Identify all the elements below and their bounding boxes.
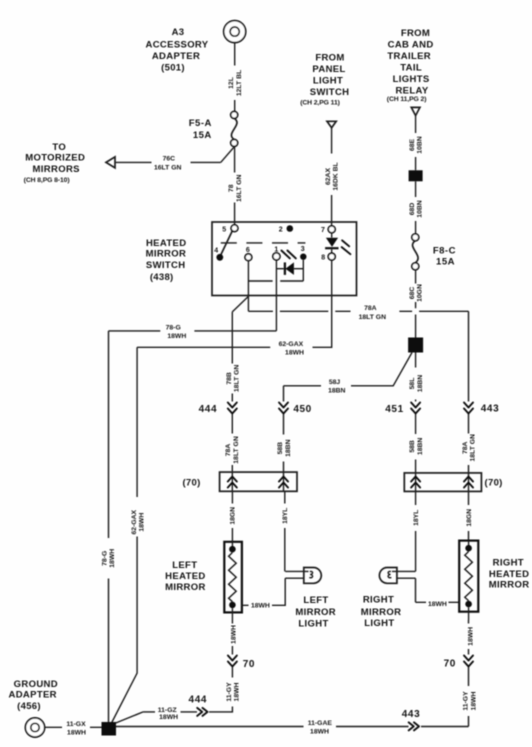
wire 78 16LT GN fuse to switch pin 5	[228, 146, 243, 225]
svg-text:HEATED: HEATED	[146, 238, 186, 249]
svg-text:18BN: 18BN	[328, 387, 345, 394]
wire 18WH right lamp to mirror	[416, 578, 460, 608]
switch S1 heated mirror switch (438) box	[212, 222, 357, 296]
LED D1 light rays	[342, 240, 351, 254]
label from panel light switch	[300, 53, 349, 107]
wire 11-GY 18WH left	[209, 667, 241, 712]
svg-text:MIRROR: MIRROR	[146, 249, 187, 260]
svg-text:15A: 15A	[436, 257, 455, 268]
svg-text:70: 70	[444, 659, 456, 670]
svg-text:8: 8	[321, 255, 325, 262]
svg-text:TO: TO	[52, 142, 66, 153]
svg-text:LIGHT: LIGHT	[298, 619, 328, 630]
LED D2 light rays	[281, 251, 296, 259]
svg-text:18WH: 18WH	[251, 603, 270, 610]
svg-text:RIGHT: RIGHT	[363, 594, 394, 605]
wire 18YL left lamp	[282, 491, 289, 571]
lamp right mirror light	[379, 568, 415, 584]
svg-text:62-GAX: 62-GAX	[279, 341, 304, 348]
svg-text:(CH 2,PG 11): (CH 2,PG 11)	[300, 100, 340, 107]
wire pin 6 vertical	[247, 261, 249, 297]
svg-text:MIRROR: MIRROR	[489, 580, 530, 591]
svg-text:78A: 78A	[364, 305, 377, 312]
svg-text:TRAILER: TRAILER	[387, 51, 431, 62]
svg-text:(456): (456)	[17, 701, 41, 712]
wire 78-G 18WH horizontal	[109, 325, 277, 341]
svg-text:MIRROR: MIRROR	[165, 582, 206, 593]
svg-text:(CH 11,PG 2): (CH 11,PG 2)	[387, 96, 427, 103]
LED D2 illumination diode horizontal	[276, 262, 303, 275]
svg-text:(70): (70)	[182, 478, 200, 489]
svg-text:451: 451	[385, 404, 404, 415]
fuse F5-A 15A	[189, 111, 238, 146]
svg-text:1: 1	[274, 246, 278, 253]
wire 78B 18LT GN column 444	[226, 312, 241, 472]
wire 18GN right mirror	[466, 491, 473, 540]
svg-text:18YL: 18YL	[413, 510, 420, 526]
ground adapter (456) connector	[25, 718, 44, 737]
svg-text:16LT GN: 16LT GN	[154, 164, 182, 171]
splice junction square 2	[408, 338, 423, 353]
arrow 444 connector	[199, 403, 237, 416]
svg-text:18GN: 18GN	[466, 509, 473, 527]
wire 58B 18BN column 450	[277, 386, 292, 472]
label heated mirror switch	[146, 238, 187, 283]
svg-text:2: 2	[279, 227, 283, 234]
svg-text:18WH: 18WH	[285, 350, 304, 357]
wire 68D 10BN	[409, 181, 424, 234]
arrow to motorized mirrors	[106, 157, 115, 168]
wire pin 6 to pin 3 internal	[248, 280, 303, 282]
svg-text:18WH: 18WH	[428, 601, 447, 608]
connector (70) left box	[182, 472, 297, 491]
arrow 450 connector	[279, 403, 312, 416]
svg-text:7: 7	[321, 227, 325, 234]
svg-text:18WH: 18WH	[167, 333, 186, 340]
connector (70) right chevrons	[411, 477, 473, 488]
svg-text:HEATED: HEATED	[165, 571, 205, 582]
wire 78-G 18WH left vertical	[102, 331, 117, 723]
svg-text:LIGHT: LIGHT	[364, 618, 394, 629]
label left heated mirror	[165, 560, 206, 593]
pin 1	[273, 246, 280, 260]
right heated mirror element R2	[459, 541, 478, 620]
wire 11-GAE 18WH bottom horizontal	[116, 720, 469, 736]
svg-text:444: 444	[199, 404, 218, 415]
label right mirror light	[361, 594, 402, 629]
svg-text:ACCESSORY: ACCESSORY	[146, 40, 209, 51]
wire 18WH left lamp to mirror	[242, 578, 285, 609]
svg-text:LEFT: LEFT	[303, 595, 328, 606]
wire 58L 18BN column 451	[409, 353, 424, 473]
svg-text:PANEL: PANEL	[312, 64, 345, 75]
svg-text:(501): (501)	[161, 62, 185, 73]
wire 78A 18LT GN above left connector	[225, 436, 240, 464]
connector (70) left chevrons	[228, 477, 288, 488]
svg-text:RELAY: RELAY	[395, 85, 428, 96]
label left mirror light	[295, 595, 336, 630]
wire 76C 16LT GN branch to motorized mirrors	[115, 146, 235, 171]
svg-text:444: 444	[189, 695, 208, 706]
switch blade pins 4-5	[214, 225, 238, 261]
svg-text:FROM: FROM	[315, 53, 344, 64]
svg-text:18YL: 18YL	[282, 508, 289, 524]
arrow 443 connector	[464, 403, 499, 415]
wire 68E 10BN	[409, 116, 424, 171]
svg-text:HEATED: HEATED	[489, 569, 529, 580]
arrow 70 left	[228, 656, 255, 671]
pin 3	[300, 246, 306, 260]
wire 18WH left ground drop	[230, 621, 237, 655]
pin 2	[279, 225, 293, 233]
arrow from cab and trailer relay	[411, 107, 420, 115]
connector A3 accessory adapter (501)	[224, 21, 246, 43]
svg-text:78-G18WH: 78-G18WH	[102, 549, 117, 568]
svg-text:11-GZ: 11-GZ	[158, 707, 177, 714]
wire 18YL right lamp	[413, 491, 420, 571]
svg-text:443: 443	[402, 709, 421, 720]
wire 18GN left mirror	[230, 491, 237, 542]
ground splice square	[102, 722, 117, 736]
arrow 451 connector	[385, 403, 420, 416]
svg-text:5: 5	[222, 226, 226, 233]
svg-text:11-GAE: 11-GAE	[308, 720, 333, 727]
svg-text:FROM: FROM	[401, 28, 430, 39]
svg-text:(70): (70)	[485, 477, 503, 488]
wire 68C 10GN	[409, 270, 424, 338]
label from cab and trailer tail lights relay	[387, 28, 434, 103]
svg-text:LEFT: LEFT	[172, 560, 197, 571]
left heated mirror element R1	[224, 542, 242, 621]
svg-text:6: 6	[246, 247, 250, 254]
svg-text:MIRRORS: MIRRORS	[33, 164, 80, 175]
svg-text:18WH: 18WH	[310, 729, 329, 736]
svg-text:15A: 15A	[193, 130, 212, 141]
svg-text:RIGHT: RIGHT	[493, 557, 524, 568]
svg-text:F5-A: F5-A	[189, 118, 212, 129]
svg-text:(CH 8,PG 8-10): (CH 8,PG 8-10)	[24, 177, 70, 184]
arrow 444 bottom	[189, 695, 208, 716]
fuse F8-C 15A	[412, 234, 456, 270]
svg-text:GROUND: GROUND	[14, 679, 58, 690]
wire 11-GX 18WH	[45, 721, 102, 737]
svg-text:58B18BN: 58B18BN	[409, 438, 424, 455]
connector (70) right box	[404, 473, 502, 492]
arrow from panel light switch	[327, 121, 336, 128]
svg-text:ADAPTER: ADAPTER	[152, 51, 200, 62]
pin 6	[245, 247, 252, 261]
wire 58J 18BN diagonal from splice	[284, 353, 413, 395]
svg-text:11-GX: 11-GX	[66, 721, 86, 728]
svg-text:58J: 58J	[329, 379, 341, 386]
wire 78A 18LT GN horizontal	[248, 296, 468, 320]
svg-text:68D10BN: 68D10BN	[409, 200, 424, 217]
svg-text:LIGHT: LIGHT	[313, 75, 343, 86]
svg-text:3: 3	[301, 246, 305, 253]
pin 7	[321, 226, 335, 234]
svg-text:18LT GN: 18LT GN	[359, 314, 387, 321]
wire pin 6 branch diagonal to 444 column	[232, 296, 248, 312]
wire 11-GY 18WH right	[463, 667, 478, 727]
svg-text:70: 70	[243, 659, 255, 670]
svg-text:58B18BN: 58B18BN	[277, 439, 292, 456]
wire pin 3 vertical	[302, 260, 304, 281]
lamp left mirror light	[285, 568, 321, 584]
splice junction square 1	[409, 170, 423, 181]
svg-text:TAIL: TAIL	[400, 62, 422, 73]
svg-text:18GN: 18GN	[230, 507, 237, 525]
svg-text:450: 450	[293, 404, 312, 415]
wire 62AX 16DK BL	[325, 128, 340, 226]
svg-text:(438): (438)	[150, 272, 174, 283]
svg-text:78-G: 78-G	[166, 325, 181, 332]
svg-text:11-GY18WH: 11-GY18WH	[463, 691, 478, 711]
svg-text:11-GY18WH: 11-GY18WH	[226, 682, 241, 702]
svg-text:443: 443	[481, 403, 500, 414]
svg-text:62-GAX18WH: 62-GAX18WH	[131, 509, 146, 534]
wire 12L 12LT BL	[228, 43, 243, 112]
svg-text:MIRROR: MIRROR	[361, 607, 402, 618]
label to motorized mirrors	[24, 142, 86, 184]
svg-text:SWITCH: SWITCH	[146, 260, 186, 271]
svg-text:MIRROR: MIRROR	[295, 607, 336, 618]
wire 11-GZ 18WH	[115, 707, 198, 724]
svg-text:F8-C: F8-C	[433, 246, 456, 257]
svg-text:ADAPTER: ADAPTER	[9, 690, 57, 701]
svg-text:4: 4	[214, 247, 218, 254]
switch linkage dashed line	[221, 242, 306, 244]
svg-text:18WH: 18WH	[67, 729, 86, 736]
wire 18WH right ground drop	[467, 620, 474, 655]
svg-text:18WH: 18WH	[230, 625, 237, 644]
svg-text:18WH: 18WH	[467, 627, 474, 646]
label ground adapter	[9, 679, 58, 712]
svg-text:76C: 76C	[163, 156, 176, 163]
wire 78A 18LT GN column 443	[462, 311, 477, 473]
wire 62-GAX 18WH from pin 8	[137, 260, 332, 356]
svg-text:A3: A3	[172, 27, 185, 38]
svg-text:MOTORIZED: MOTORIZED	[25, 153, 85, 164]
svg-text:SWITCH: SWITCH	[310, 87, 350, 98]
label A3 accessory adapter	[146, 27, 209, 73]
svg-text:LIGHTS: LIGHTS	[393, 74, 430, 85]
arrow 443 bottom	[402, 709, 421, 730]
label right heated mirror	[489, 557, 530, 590]
wire pin 1 vertical to 78-G	[275, 260, 277, 331]
arrow 70 right	[444, 656, 473, 670]
svg-text:18WH: 18WH	[159, 714, 178, 721]
pin 8	[321, 253, 335, 262]
wire 62-GAX 18WH left vertical	[112, 347, 146, 723]
svg-text:CAB AND: CAB AND	[388, 40, 434, 51]
LED D1 pilot lamp vertical	[325, 233, 338, 253]
